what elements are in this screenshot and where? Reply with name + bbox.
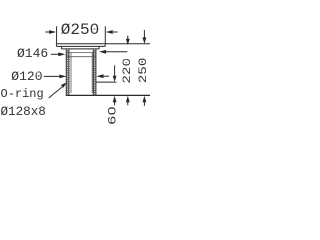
pipe right bore line [91,53,93,94]
dim Ø250 right extension line [104,26,106,43]
arrowhead dim 60 bottom (up) [113,96,117,103]
collar bottom line [61,48,99,50]
pipe left wall ribs [66,51,69,95]
svg-text:Ø146: Ø146 [17,46,48,61]
arrowhead O-ring leader [61,82,67,88]
dim 250 bottom arrow tail [143,102,145,106]
pipe right wall band fill [93,49,96,95]
pipe right wall band inner line [92,49,94,95]
svg-text:250: 250 [137,58,150,84]
flange left edge [55,44,57,47]
dim Ø250 left extension line [56,26,58,43]
pipe right wall ribs [93,51,96,95]
dim Ø250 left tail [45,31,49,33]
O-ring groove stub line [96,81,117,83]
collar right edge [98,46,100,49]
dim 220 top arrow tail [127,36,129,40]
leader line O-ring diagonal [49,87,63,98]
dim 60 top arrow tail [114,65,116,76]
svg-text:Ø120: Ø120 [11,69,42,84]
pipe right outer wall [95,49,97,95]
arrowhead dim 220 bottom (up) [126,96,130,103]
svg-text:60: 60 [107,106,119,125]
dim 250 top arrow tail [143,30,145,38]
arrowhead dim 250 bottom (up) [143,96,147,103]
flange right edge [104,44,106,47]
arrowhead dim 220 top (down) [126,39,130,45]
arrowhead Ø250 right [106,30,113,34]
dim Ø250 right tail [113,31,118,33]
arrowhead Ø120 right side [96,74,103,78]
pipe left wall band fill [66,49,69,95]
arrowhead Ø146 [58,52,65,56]
pipe left outer wall [65,49,67,95]
flange top line with right extension [56,43,150,45]
dim 60 bottom arrow tail [114,102,116,106]
arrowhead Ø146 right side [99,50,106,54]
white patches to hide Liberation Mono dotted-zero dots [37,26,127,112]
arrowhead dim 250 top (down) [143,37,147,44]
dim 220 bottom arrow tail [127,102,129,106]
leader line Ø146 [51,53,59,55]
svg-text:O-ring: O-ring [1,87,44,101]
arrowhead dim 60 top (down) [113,76,117,82]
pipe left bore line [70,53,72,94]
flange bottom line [56,45,105,47]
leader line Ø120 [44,75,60,77]
leader tail Ø146 right side [106,51,128,53]
svg-text:Ø250: Ø250 [61,21,99,39]
pipe bottom line with right extension [66,94,150,96]
collar left edge [60,46,62,49]
leader tail Ø120 right side [103,75,109,77]
svg-text:Ø128x8: Ø128x8 [1,105,46,119]
pipe rim line 2 [66,56,96,58]
pipe left wall band inner line [68,49,70,95]
arrowhead Ø250 left [49,30,56,34]
arrowhead Ø120 [59,75,66,79]
pipe rim line 1 [66,52,96,54]
